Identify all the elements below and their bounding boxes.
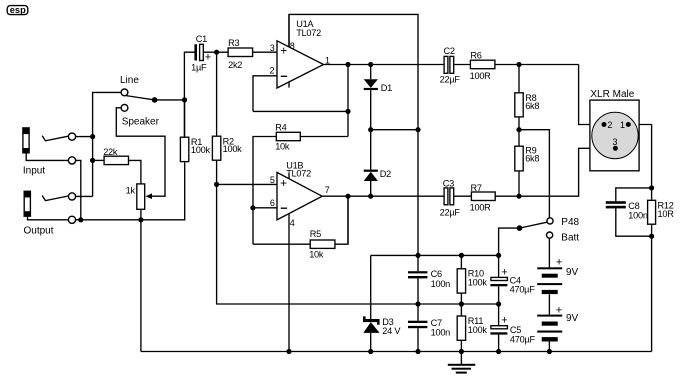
wire U1B vplus tick [288,173,290,179]
node bottom C7 junction [415,349,420,354]
wire U1B out down to R5 [347,196,349,244]
wire R6 to XLR corner [495,64,579,66]
wire D2 top stub [370,130,372,170]
wire D3 anode to bottom rail [370,333,372,352]
wire R7 to pin3 corner [495,148,615,196]
wire R12 bottom to rail [651,224,653,351]
wire vplus rail [371,254,499,256]
resistor R7 [470,183,496,213]
wire U1A out down to R4 [347,65,349,137]
wire U1A pin8 stub [288,14,290,47]
wire C4 stubs [498,255,500,304]
svg-text:+: + [556,305,562,317]
wire C5 stubs [498,304,500,352]
wire R8 R9 between [518,117,520,146]
svg-text:1: 1 [620,120,625,130]
diode D2 [364,169,391,181]
svg-text:8: 8 [290,41,295,51]
node mid C4 junction [496,301,501,306]
wire U1B output line [322,195,444,197]
wire pin5 [217,183,277,185]
switch P48 contact [547,217,580,228]
svg-text:3: 3 [270,43,275,53]
wire R6 node to XLR pin2 [579,65,604,125]
wire input sleeve link down [76,160,81,219]
svg-text:P48: P48 [561,217,579,228]
svg-text:9V: 9V [566,313,579,324]
node pot bottom junction [138,217,143,222]
op-amp U1A [270,19,331,88]
wire U1A vminus tick [288,82,290,88]
capacitor C4 [490,266,535,294]
node bottom R11 junction [459,349,464,354]
resistor R1 [180,137,210,161]
svg-text:R7: R7 [471,183,482,193]
svg-text:1: 1 [325,55,330,65]
wire U1B pin4 down [288,214,290,352]
svg-text:D2: D2 [380,169,391,179]
wire C2 to R6 [454,64,471,66]
label Output [24,226,54,237]
svg-text:6k8: 6k8 [525,101,539,111]
svg-text:6: 6 [270,198,275,208]
svg-text:XLR Male: XLR Male [590,89,634,100]
svg-text:R6: R6 [470,50,481,60]
svg-text:+: + [501,315,507,327]
input tip contact [68,133,75,140]
resistor R8 [515,93,540,117]
svg-text:Line: Line [120,75,139,86]
svg-text:2k2: 2k2 [228,60,242,70]
svg-text:Speaker: Speaker [122,116,160,127]
input sleeve contact [68,157,75,164]
svg-text:100n: 100n [628,210,648,220]
node R6 out junction [516,62,521,67]
wire C1 right to R3 [203,51,228,53]
svg-text:C1: C1 [196,34,207,44]
wire R3 to pin3 [253,51,277,53]
wire 22k left [93,159,105,161]
wire batt contact to battery [548,238,550,267]
wire pin2 stub [253,76,277,112]
wire XLR pin1 out [628,125,651,201]
switch lever arm [126,96,157,103]
resistor R3 [228,38,253,70]
switch batt contact [547,232,580,243]
node bottom pin4 junction [286,349,291,354]
wire C7 stubs [417,304,419,352]
wire R8R9 node to P48 [519,130,549,218]
svg-text:+: + [556,256,562,268]
wire C8 top link [616,188,652,201]
svg-text:2: 2 [270,65,275,75]
switch line contact [121,89,128,96]
wire R2 bottom to mid rail [217,160,499,304]
svg-text:100k: 100k [223,144,243,154]
svg-text:TL072: TL072 [296,28,321,38]
resistor R11 [457,316,487,340]
input tip lever [42,136,68,141]
output tip lever [42,196,68,201]
op-amp U1B [270,161,330,228]
svg-text:+: + [501,266,507,278]
svg-text:3: 3 [613,137,618,147]
svg-text:100n: 100n [431,327,451,337]
wire top box pin8 rail [289,14,418,255]
capacitor C1 [191,34,211,72]
node R8 R9 junction [516,127,521,132]
svg-text:100R: 100R [470,71,492,81]
capacitor C2 [440,46,461,85]
wire D1 bottom stub [370,90,372,130]
XLR connector [590,89,639,171]
svg-text:esp: esp [10,5,26,15]
node rail D link junction [415,127,420,132]
wire vplus to D3 [370,255,372,319]
wire R10 stubs [460,255,462,304]
svg-text:470µF: 470µF [510,285,536,295]
svg-text:Input: Input [23,166,45,177]
svg-text:1µF: 1µF [191,63,207,73]
capacitor C5 [490,315,535,345]
switch P48 pole arm [517,222,547,231]
node pin6 junction [250,205,255,210]
wire R8 top stub [518,65,520,93]
wire R9 bottom [518,171,520,196]
wire feedback U1A [253,110,348,112]
svg-text:+: + [280,44,287,58]
svg-text:100k: 100k [468,325,488,335]
svg-text:100n: 100n [431,279,451,289]
output sleeve contact [68,216,75,223]
wire jack ground rail [76,162,185,220]
diode D1 [364,79,392,93]
node D1 top junction [368,62,373,67]
node mid R10 junction [459,301,464,306]
resistor R2 [212,136,242,160]
svg-text:D1: D1 [381,83,392,93]
battery B2 9V [537,305,578,342]
node vplus C6 junction [415,253,420,258]
wire pot bottom to ground rail [140,209,142,351]
svg-text:6k8: 6k8 [525,154,539,164]
wire ground stub [460,352,462,365]
svg-text:10k: 10k [309,250,324,260]
svg-text:C2: C2 [444,46,455,56]
wire C1 left to switch [184,52,194,137]
svg-text:22µF: 22µF [440,208,461,218]
label Speaker [122,116,160,127]
node vplus C4 junction [496,253,501,258]
svg-text:10k: 10k [275,141,290,151]
capacitor C6 [408,269,450,289]
svg-text:24 V: 24 V [382,326,401,336]
svg-text:22µF: 22µF [440,75,461,85]
wire bottom rail [141,351,652,353]
output tip contact [68,193,75,200]
wire pin6 [253,207,277,209]
svg-text:C6: C6 [431,269,442,279]
node switch junction [182,97,187,102]
svg-text:100k: 100k [468,277,488,287]
capacitor C8 [606,201,648,220]
svg-text:5: 5 [270,175,275,185]
label Line [120,75,139,86]
svg-text:7: 7 [325,185,330,195]
wire switch pole to vplus [499,228,520,255]
capacitor C7 [408,318,450,337]
node C1 R3 junction [214,50,219,55]
svg-text:22k: 22k [103,147,118,157]
svg-text:C3: C3 [443,179,454,189]
zener D3 [363,316,401,336]
node bottom C5 junction [496,349,501,354]
node feedback tee junction [345,109,350,114]
wire output tip to node [76,195,93,197]
node D1 D2 junction [368,127,373,132]
wire line switch to vertical [155,99,185,101]
resistor 22k [103,147,128,165]
svg-text:Output: Output [24,226,54,237]
node U1A out junction [345,62,350,67]
output jack body [24,191,69,220]
node mid C6 junction [415,301,420,306]
node bottom D3 junction [368,349,373,354]
resistor R5 [309,229,335,260]
wire R4 right [300,136,348,138]
wire D1 D2 mid link [371,129,418,131]
resistor R4 [275,123,300,152]
svg-text:R3: R3 [228,38,239,48]
node D2 bottom junction [368,194,373,199]
node C8 bottom junction [649,234,654,239]
node C8 top junction [649,185,654,190]
capacitor C3 [440,179,461,218]
svg-text:TL072: TL072 [286,169,311,179]
wire R1 top [184,100,186,137]
wire line contact left [93,92,121,196]
node input tip junction [90,134,95,139]
wire C8 bottom link [616,208,652,236]
svg-text:9V: 9V [566,267,579,278]
node U1B out junction [345,194,350,199]
potentiometer 1k [126,184,152,209]
node R7 out junction [516,194,521,199]
node bottom battery junction [547,349,552,354]
wire battery mid [548,294,550,314]
node output sleeve junction [78,217,83,222]
wire C6 stubs [417,255,419,304]
wire U1A output line [324,64,445,66]
svg-text:2: 2 [607,120,612,130]
wire speaker contact to pot wiper [116,108,165,196]
svg-text:4: 4 [290,218,295,228]
battery B1 9V [537,256,578,294]
wire battery bottom [548,342,550,352]
svg-text:10R: 10R [658,209,675,219]
node 22k junction [90,158,95,163]
wire D1 top stub [370,65,372,80]
svg-text:R4: R4 [275,123,286,133]
svg-text:100k: 100k [191,145,211,155]
wire R5 line [253,196,348,244]
svg-text:Batt: Batt [561,232,579,243]
wire input tip [76,136,93,138]
input jack body [22,127,68,160]
svg-text:R5: R5 [310,229,321,239]
wire R4 line left [253,137,276,245]
switch speaker contact [121,104,128,111]
wire R11 stubs [460,304,462,352]
node pin5 junction [214,182,219,187]
ground [448,364,476,374]
svg-text:100R: 100R [470,203,492,213]
resistor R6 [470,50,495,81]
wire D2 bottom stub [370,181,372,196]
wire R2 top [216,52,218,136]
wire C3 to R7 [454,195,472,197]
label Input [23,166,45,177]
svg-text:470µF: 470µF [510,335,536,345]
resistor R10 [457,268,487,293]
resistor R12 [648,200,675,224]
ESP logo [7,5,28,15]
svg-text:1k: 1k [126,185,136,195]
resistor R9 [515,145,540,171]
wire 22k right to pot top [129,160,141,184]
node vplus R10 junction [459,253,464,258]
